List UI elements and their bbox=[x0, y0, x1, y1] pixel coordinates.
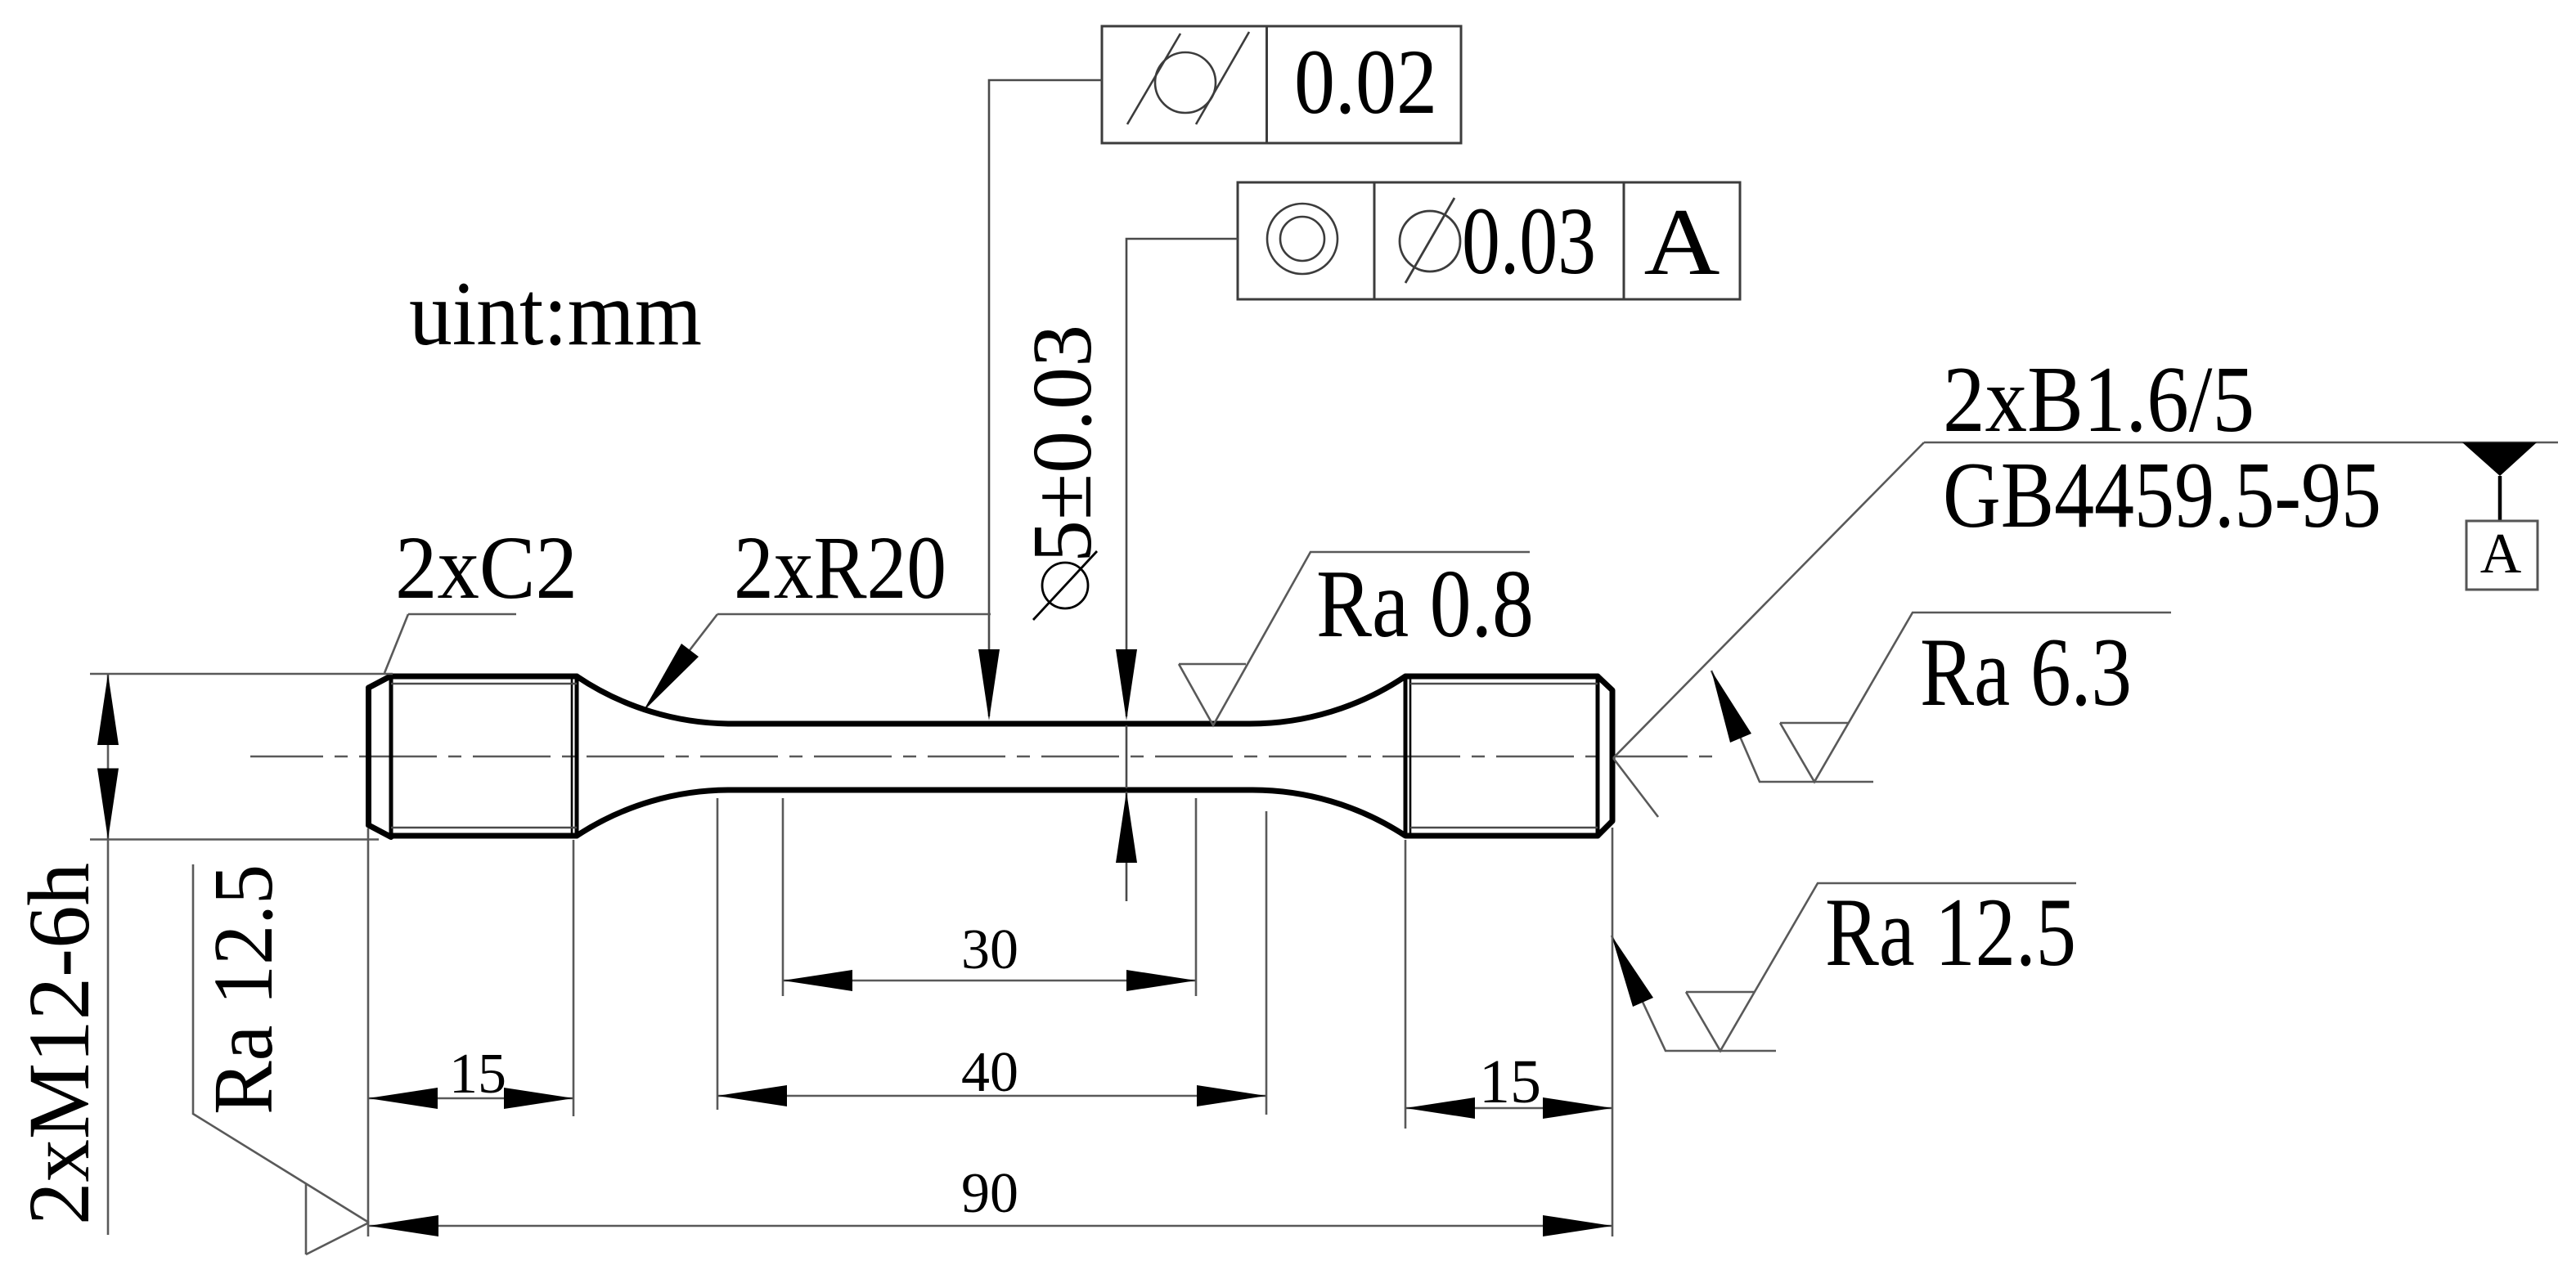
svg-text:Ra 12.5: Ra 12.5 bbox=[196, 864, 290, 1115]
svg-text:2xB1.6/5: 2xB1.6/5 bbox=[1943, 348, 2255, 451]
svg-text:A: A bbox=[1644, 188, 1720, 294]
dia 5 +-0.03 label (rotated) bbox=[1033, 551, 1097, 620]
extension line parallel length left bbox=[717, 798, 719, 1110]
extension line left grip inner end bbox=[573, 840, 575, 1116]
svg-text:0.03: 0.03 bbox=[1462, 187, 1596, 294]
concentricity feature control frame bbox=[1238, 182, 1740, 299]
extension line right end face bbox=[1612, 828, 1614, 1236]
Ra 0.8 surface symbol bbox=[1179, 552, 1530, 725]
left Ra 12.5 surface note (rotated) bbox=[193, 864, 369, 1254]
svg-text:0.02: 0.02 bbox=[1294, 31, 1437, 133]
svg-text:5±0.03: 5±0.03 bbox=[1015, 325, 1109, 563]
svg-text:2xC2: 2xC2 bbox=[395, 518, 578, 617]
svg-text:A: A bbox=[2480, 523, 2522, 586]
concentricity leader bbox=[1126, 239, 1238, 788]
svg-text:Ra 12.5: Ra 12.5 bbox=[1825, 877, 2076, 986]
svg-text:Ra 0.8: Ra 0.8 bbox=[1316, 550, 1534, 657]
cylindricity leader bbox=[989, 80, 1102, 716]
dimension 15 left bbox=[368, 1097, 573, 1100]
2xB1.6/5 GB4459.5-95 center hole note bbox=[1613, 442, 2558, 817]
concentricity value dia 0.03 bbox=[1400, 198, 1460, 283]
Ra 6.3 surface note bbox=[1711, 613, 2171, 782]
center line bbox=[250, 756, 1721, 758]
svg-text:15: 15 bbox=[449, 1043, 506, 1106]
specimen outline bbox=[369, 676, 1613, 837]
svg-text:15: 15 bbox=[1479, 1048, 1541, 1116]
extension line right grip inner end bbox=[1405, 840, 1407, 1129]
extension line gauge left bbox=[782, 798, 784, 996]
grip end verticals bbox=[391, 675, 1598, 837]
svg-text:2xR20: 2xR20 bbox=[734, 518, 946, 617]
concentricity datum letter A bbox=[1644, 188, 1720, 294]
datum A symbol bbox=[2462, 442, 2537, 476]
extension line parallel length right bbox=[1266, 811, 1268, 1115]
Ra 12.5 right surface note bbox=[1612, 883, 2076, 1051]
dimension 15 right bbox=[1405, 1107, 1612, 1110]
svg-text:90: 90 bbox=[961, 1162, 1018, 1225]
thread minor-diameter lines bbox=[391, 684, 1598, 828]
svg-text:uint:mm: uint:mm bbox=[409, 263, 702, 365]
extension line left end face bbox=[367, 828, 370, 1236]
svg-text:40: 40 bbox=[961, 1041, 1018, 1104]
extension line gauge right bbox=[1195, 798, 1198, 996]
svg-text:GB4459.5-95: GB4459.5-95 bbox=[1943, 443, 2381, 547]
svg-text:30: 30 bbox=[961, 918, 1018, 981]
dimension 40 bbox=[717, 1095, 1266, 1097]
dimension 30 bbox=[783, 980, 1196, 982]
svg-text:Ra 6.3: Ra 6.3 bbox=[1920, 617, 2132, 726]
svg-text:2xM12-6h: 2xM12-6h bbox=[11, 863, 108, 1225]
dia5 lower arrow bbox=[1126, 792, 1128, 901]
cylindricity feature control frame bbox=[1102, 26, 1461, 143]
dimension 90 bbox=[369, 1225, 1612, 1227]
left grip diameter dimension 2xM12-6h bbox=[90, 674, 393, 1235]
